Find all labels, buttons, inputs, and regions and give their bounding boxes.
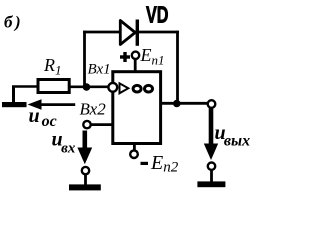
ground [197, 163, 225, 188]
input Vx2 [83, 121, 113, 128]
arrow u_vyh [204, 108, 218, 160]
arrow u_vx [77, 131, 92, 165]
wire [176, 31, 179, 104]
wire output [161, 102, 207, 105]
wire [70, 86, 109, 89]
terminal +Ep1 [120, 52, 139, 71]
arrow u_oc [28, 99, 76, 110]
resistor R1 [38, 80, 69, 93]
diode VD [120, 20, 137, 46]
svg-text:б): б) [4, 13, 23, 32]
op-amp infinity symbol [133, 85, 152, 92]
wire [83, 31, 86, 87]
wire [83, 31, 179, 34]
svg-text:Вх1: Вх1 [88, 62, 111, 78]
label Ep2 [141, 152, 179, 176]
svg-text:Вх2: Вх2 [80, 100, 107, 119]
wire [12, 85, 37, 88]
node output junction [173, 100, 181, 108]
node Vx1 [83, 83, 91, 91]
op-amp U1 [113, 72, 161, 144]
op-amp triangle symbol [120, 83, 129, 93]
svg-text:VD: VD [146, 2, 169, 28]
ground [2, 87, 27, 108]
terminal -Ep2 [130, 144, 138, 159]
op-amp inversion bubble [108, 83, 117, 92]
terminal output [208, 100, 216, 108]
ground [69, 167, 101, 190]
